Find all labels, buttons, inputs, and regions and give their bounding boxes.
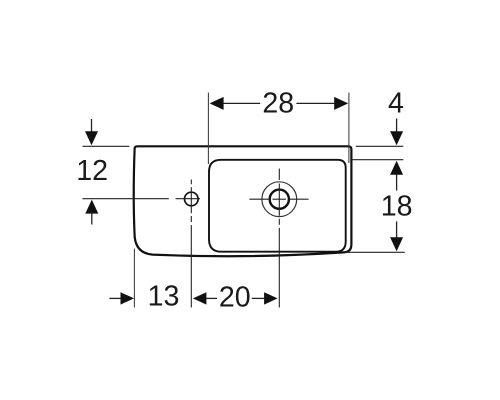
- dim 12: lower leader: [91, 213, 93, 224]
- svg-text:18: 18: [381, 191, 413, 223]
- dim 12: down arrow: [85, 131, 98, 145]
- drain outer circle: [262, 182, 297, 217]
- dim 20: right stub: [252, 297, 265, 299]
- dim 18: lower leader: [396, 222, 398, 238]
- svg-text:4: 4: [388, 88, 404, 120]
- faucet hole horizontal centerline: [83, 198, 201, 200]
- dim 20: left stub: [206, 297, 217, 299]
- dim 28: extension line left: [207, 93, 209, 165]
- svg-text:13: 13: [148, 281, 180, 313]
- drain horizontal centerline: [249, 198, 308, 200]
- dim 4: top reference line: [356, 145, 404, 147]
- dim 18: bottom reference line: [346, 251, 405, 253]
- dim 20: right-pointing arrow at drain centerline: [264, 292, 278, 304]
- bowl (inner basin): [209, 160, 346, 252]
- dim 28: arrow right: [334, 97, 348, 110]
- dim 12: upper leader: [91, 119, 93, 132]
- svg-text:12: 12: [76, 155, 108, 187]
- faucet hole: [185, 192, 199, 206]
- dim 4/18: shared reference line at bowl rim: [352, 159, 403, 161]
- dim 13: right-pointing arrow (outside): [121, 292, 135, 304]
- dim 18: down arrow: [390, 237, 403, 251]
- drain inner circle: [270, 190, 289, 209]
- dim 13/20: left extension line (basin left edge): [133, 249, 135, 308]
- dim 4: down arrow: [390, 131, 403, 145]
- dim 28: extension line right: [348, 93, 350, 164]
- dim 4: leader from above: [396, 119, 398, 133]
- faucet hole vertical centerline: [190, 180, 192, 308]
- dim 12: up arrow: [85, 200, 98, 214]
- svg-text:28: 28: [262, 88, 294, 120]
- dim 18: upper leader: [396, 175, 398, 191]
- drain vertical centerline: [278, 169, 280, 308]
- basin outer outline: [134, 146, 352, 256]
- dim 20: left-pointing arrow at faucet centerline: [193, 292, 207, 304]
- dim 28: arrow left: [210, 97, 224, 110]
- dim 13: left tail: [109, 297, 121, 299]
- svg-text:20: 20: [219, 282, 251, 314]
- dim 18: up arrow: [390, 161, 403, 175]
- dim 12: top reference line: [83, 145, 130, 147]
- dim 28: dimension line: [223, 102, 336, 104]
